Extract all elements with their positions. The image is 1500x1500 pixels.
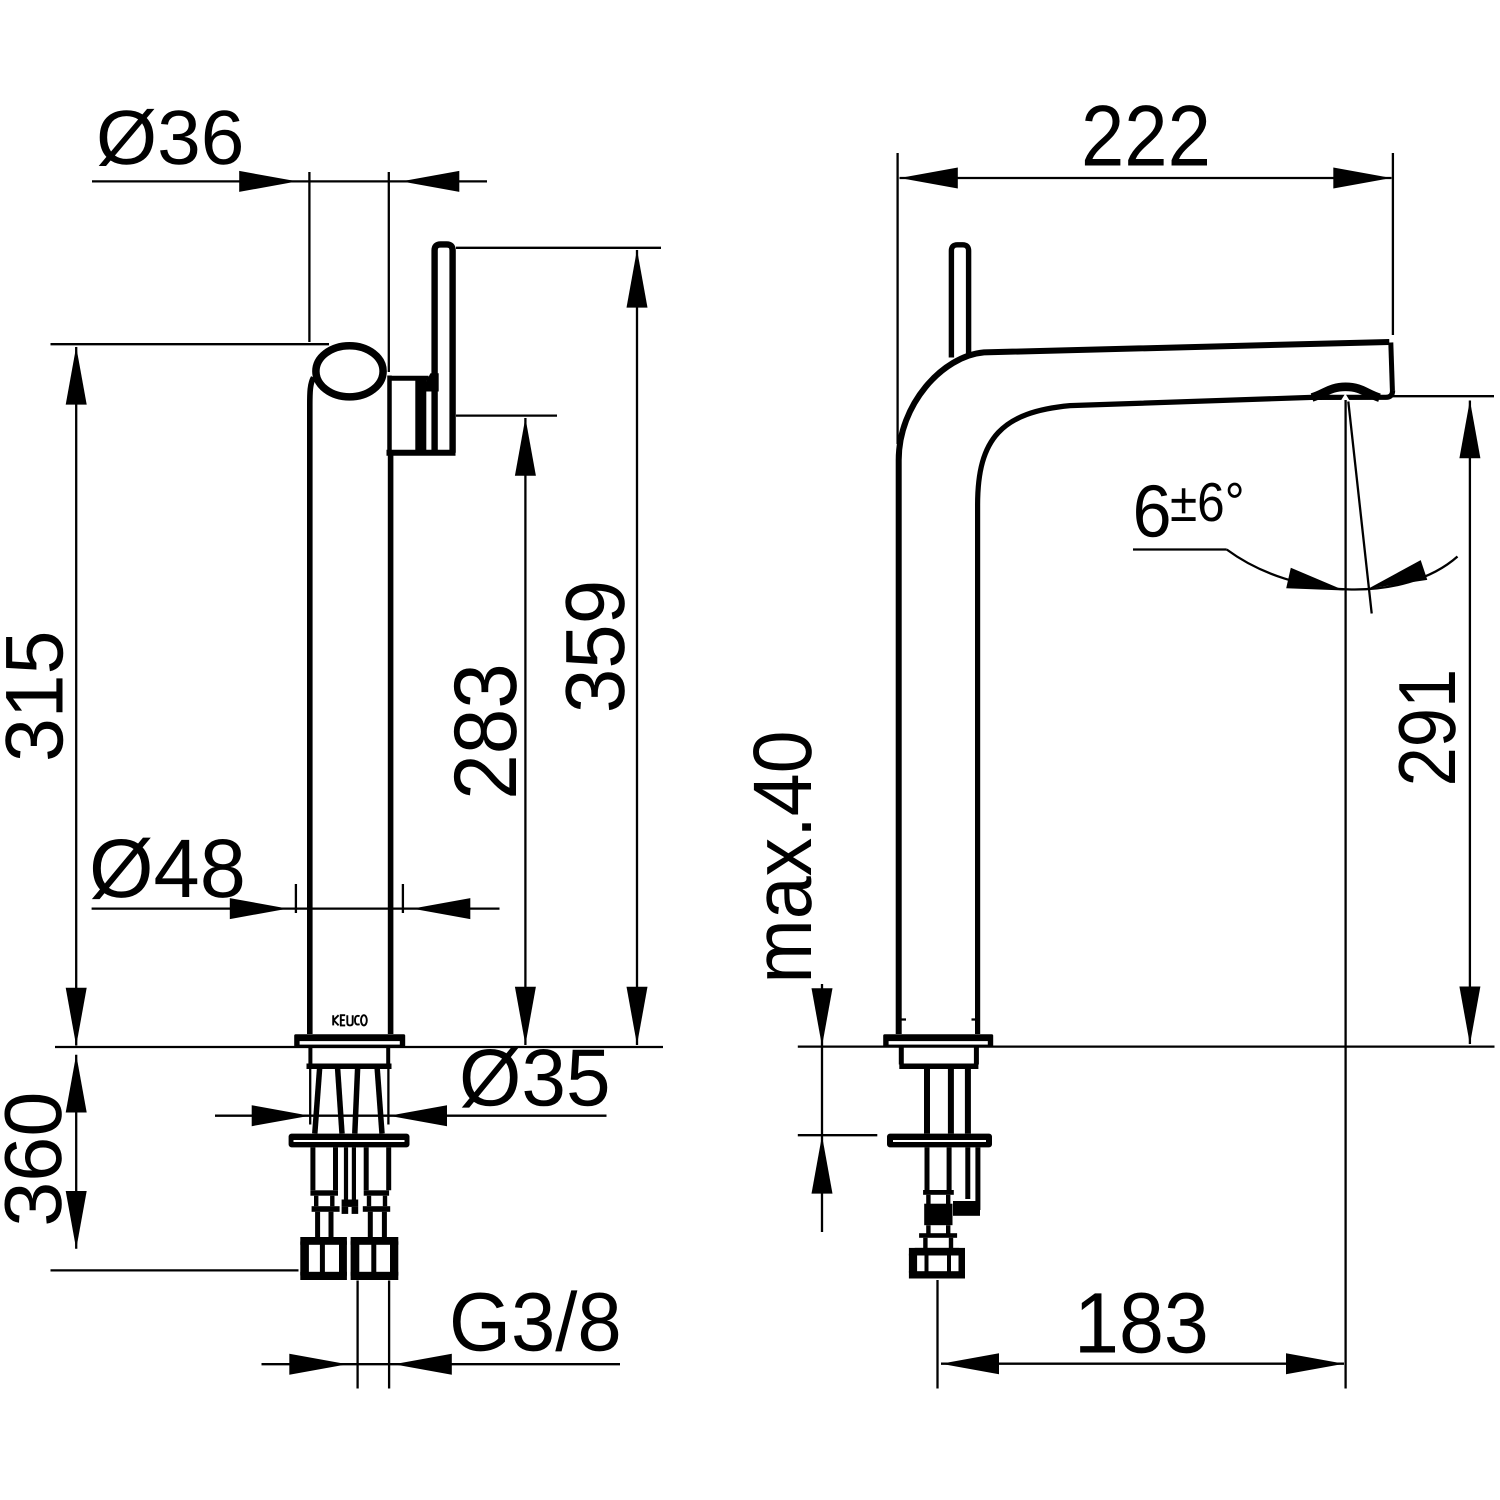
- side shank bottom bar: [899, 1063, 978, 1069]
- lever ball: [316, 346, 383, 397]
- ext 183 left: [936, 1280, 938, 1389]
- dim 291 line: [1469, 401, 1471, 1045]
- cone line 2: [338, 1069, 342, 1134]
- left hose upper: [313, 1147, 336, 1190]
- right hose mid: [369, 1196, 385, 1207]
- dim 315 arrow down: [66, 988, 87, 1046]
- side hose mid: [928, 1195, 948, 1204]
- dim 283 arrow up: [515, 418, 536, 476]
- svg-text:Ø36: Ø36: [96, 95, 244, 181]
- ext G38 right: [388, 1281, 390, 1389]
- dim 359 arrow down: [627, 987, 648, 1045]
- aerator dome: [1312, 387, 1380, 398]
- KEUCO logo: [333, 1015, 367, 1025]
- ext 283: [456, 414, 557, 416]
- svg-text:6: 6: [1133, 470, 1172, 553]
- ref max40: [798, 1134, 878, 1136]
- svg-text:max.40: max.40: [736, 730, 829, 983]
- ext 222 left: [896, 153, 898, 444]
- cartridge collar bottom: [387, 450, 456, 456]
- front shank bottom bar: [307, 1063, 392, 1069]
- svg-text:±6°: ±6°: [1170, 471, 1245, 533]
- right hose lower: [370, 1212, 384, 1237]
- left hose crimp1: [310, 1190, 338, 1195]
- svg-text:291: 291: [1383, 669, 1473, 787]
- side lower flange: [887, 1134, 992, 1148]
- ext 48 right: [402, 884, 404, 913]
- front body left edge: [310, 378, 314, 1035]
- ext 222 right: [1392, 153, 1394, 335]
- ext 35 left: [309, 1069, 311, 1125]
- front body right edge: [388, 454, 394, 1034]
- dim max40 line: [821, 984, 823, 1232]
- side rod line 1: [924, 1069, 930, 1134]
- side base plate: [883, 1034, 993, 1047]
- right hex nut: [351, 1237, 399, 1280]
- dim 222 arrow left: [900, 168, 958, 189]
- ext 36 left: [308, 172, 310, 342]
- dim max40 arrow up: [812, 1136, 833, 1194]
- angle arc arrow right: [1369, 560, 1428, 588]
- dim 360 line: [75, 1055, 77, 1249]
- left hex nut: [300, 1237, 347, 1280]
- dim 183 line: [941, 1363, 1344, 1365]
- side hose upper: [927, 1147, 949, 1190]
- ref line 315 top: [51, 343, 330, 345]
- side shank right: [974, 1048, 979, 1065]
- side claw: [968, 1147, 978, 1210]
- right hose crimp1: [364, 1190, 389, 1195]
- side lever rod: [951, 245, 968, 358]
- side shank left: [899, 1048, 904, 1065]
- front shank left: [308, 1048, 312, 1065]
- cone line 1: [315, 1069, 320, 1134]
- dim 48 arrow right: [412, 898, 470, 919]
- svg-text:Ø48: Ø48: [89, 822, 246, 915]
- FRONT-VIEW-GROUP: [289, 244, 456, 1280]
- spout underside and inner curve: [978, 391, 1393, 1035]
- dim 291 arrow down: [1459, 987, 1480, 1045]
- angle arc: [1227, 550, 1458, 590]
- dim 315 arrow up: [66, 347, 87, 405]
- svg-text:Ø35: Ø35: [459, 1034, 611, 1124]
- dim max40 arrow down: [812, 988, 833, 1046]
- dim 315 line: [75, 347, 77, 1046]
- ext 48 left: [295, 884, 297, 913]
- countertop line side: [798, 1045, 1495, 1047]
- cartridge collar left edge: [387, 376, 392, 453]
- dim 35 arrow right: [389, 1105, 447, 1126]
- left hose mid: [316, 1196, 332, 1207]
- dim 35 arrow left: [252, 1105, 310, 1126]
- side hose block: [924, 1204, 952, 1226]
- dim 222 line: [900, 177, 1392, 179]
- side hose mid2: [928, 1225, 948, 1233]
- ext 359: [456, 247, 661, 249]
- dim 36 line: [92, 180, 487, 182]
- svg-text:315: 315: [0, 631, 80, 762]
- angle vertical ref: [1344, 400, 1346, 1389]
- dim 360 arrow up: [66, 1055, 87, 1113]
- dim G38 arrow left: [289, 1354, 347, 1375]
- spout end edge: [1391, 343, 1393, 391]
- dim G38 line: [262, 1363, 621, 1365]
- dim 291 arrow up: [1459, 400, 1480, 458]
- side outer profile: [899, 342, 1390, 1034]
- ref line 360 bottom: [51, 1269, 299, 1271]
- ext G38 left: [356, 1281, 358, 1389]
- ext 35 right: [387, 1069, 389, 1125]
- side body ticks: [902, 1018, 977, 1020]
- dim 222 arrow right: [1333, 168, 1391, 189]
- ref 291 top: [1393, 395, 1495, 397]
- collar wedge: [421, 373, 439, 391]
- cartridge collar top: [390, 376, 429, 381]
- right hose upper: [366, 1147, 389, 1190]
- dim 183 arrow left: [941, 1353, 999, 1374]
- side rod line 2: [948, 1069, 954, 1134]
- dim 36 arrow left: [239, 171, 297, 192]
- svg-text:222: 222: [1081, 88, 1211, 184]
- front base plate: [294, 1034, 405, 1047]
- svg-text:G3/8: G3/8: [449, 1276, 622, 1369]
- SIDE-VIEW-GROUP: [883, 245, 1392, 1279]
- ext 36 right: [388, 172, 390, 372]
- countertop line front: [55, 1046, 663, 1048]
- angle arc arrow left: [1286, 568, 1344, 591]
- dim 183 arrow right: [1286, 1353, 1344, 1374]
- side collar bar: [919, 1233, 957, 1238]
- front shank right: [386, 1048, 390, 1065]
- lever rod front: [435, 244, 453, 452]
- dim 48 line: [92, 907, 500, 909]
- side rod line 3: [965, 1069, 971, 1134]
- central pull rod: [346, 1147, 354, 1199]
- dim 283 line: [524, 418, 526, 1045]
- side hose crimp: [923, 1190, 954, 1195]
- left hose lower: [318, 1212, 331, 1237]
- right hose crimp2: [363, 1206, 390, 1212]
- dim 48 arrow left: [230, 898, 288, 919]
- angle slant line: [1348, 402, 1371, 614]
- pull rod end: [342, 1200, 359, 1207]
- svg-text:360: 360: [0, 1092, 79, 1227]
- dim 36 arrow right: [401, 171, 459, 192]
- dim 359 line: [636, 250, 638, 1045]
- dim 283 arrow down: [515, 987, 536, 1045]
- dim 35 line: [215, 1115, 607, 1117]
- side hex nut: [909, 1248, 965, 1279]
- side stub: [925, 1238, 951, 1249]
- left hose crimp2: [312, 1206, 340, 1212]
- dim 359 arrow up: [627, 250, 648, 308]
- angle leader underline: [1133, 548, 1227, 550]
- svg-text:283: 283: [435, 663, 535, 800]
- svg-text:183: 183: [1074, 1276, 1209, 1372]
- collar dark bar: [415, 378, 426, 453]
- dim G38 arrow right: [394, 1354, 452, 1375]
- svg-text:359: 359: [548, 580, 642, 713]
- aerator notch: [1341, 394, 1351, 402]
- front lower flange: [289, 1134, 410, 1148]
- cone line 4: [377, 1069, 382, 1134]
- dim 360 arrow down: [66, 1191, 87, 1249]
- cone line 3: [355, 1069, 358, 1134]
